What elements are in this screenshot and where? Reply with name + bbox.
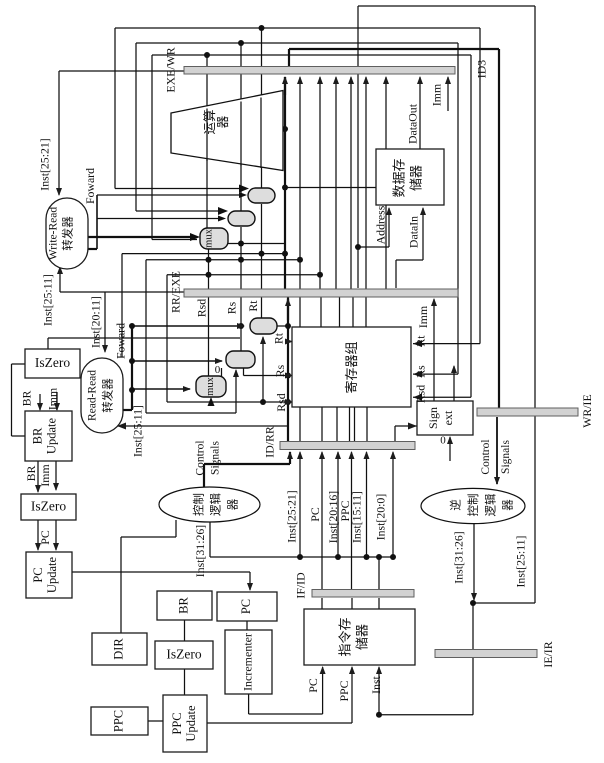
svg-text:Address: Address: [374, 205, 388, 244]
svg-text:Rs: Rs: [414, 365, 428, 378]
svg-text:Inst[20:11]: Inst[20:11]: [89, 296, 103, 348]
svg-text:PPC: PPC: [170, 712, 184, 734]
svg-text:转发器: 转发器: [101, 378, 115, 413]
svg-text:RR/EXE: RR/EXE: [169, 271, 183, 313]
svg-text:0: 0: [440, 435, 446, 447]
svg-text:DataIn: DataIn: [407, 216, 421, 248]
svg-text:Inst[25:11]: Inst[25:11]: [131, 405, 145, 457]
svg-text:Write-Read: Write-Read: [48, 207, 60, 260]
svg-text:DataOut: DataOut: [406, 103, 420, 144]
svg-text:Imm: Imm: [46, 388, 60, 410]
svg-text:Rsd: Rsd: [414, 385, 428, 403]
svg-text:储器: 储器: [408, 165, 423, 191]
svg-text:PC: PC: [308, 507, 322, 522]
svg-text:数据存: 数据存: [391, 158, 406, 197]
svg-text:Inst[31:26]: Inst[31:26]: [452, 531, 466, 583]
svg-text:Signals: Signals: [500, 440, 512, 474]
svg-text:Update: Update: [184, 705, 198, 742]
svg-text:Rsd: Rsd: [195, 299, 209, 317]
svg-text:器: 器: [216, 115, 230, 128]
svg-text:运算: 运算: [202, 109, 217, 134]
svg-text:Inst[20:0]: Inst[20:0]: [374, 494, 388, 541]
svg-text:Rs: Rs: [225, 301, 239, 314]
svg-text:控制: 控制: [466, 494, 480, 517]
svg-text:Inst[25:21]: Inst[25:21]: [38, 138, 52, 190]
svg-text:Inst[25:11]: Inst[25:11]: [514, 535, 528, 587]
svg-text:Sign: Sign: [426, 407, 440, 429]
svg-text:Rsd: Rsd: [274, 393, 288, 411]
svg-text:Imm: Imm: [430, 84, 444, 106]
svg-text:寄存器组: 寄存器组: [344, 341, 359, 393]
svg-text:IsZero: IsZero: [31, 499, 66, 514]
svg-text:PC: PC: [38, 530, 52, 545]
svg-text:Signals: Signals: [210, 441, 222, 475]
svg-text:器: 器: [502, 499, 515, 511]
svg-text:BR: BR: [30, 427, 44, 444]
svg-text:IF/ID: IF/ID: [294, 572, 308, 599]
svg-text:mux: mux: [205, 376, 216, 395]
svg-text:Inst[25:11]: Inst[25:11]: [41, 274, 55, 326]
svg-text:Inst[15:11]: Inst[15:11]: [350, 491, 364, 543]
svg-text:EXE/WR: EXE/WR: [164, 47, 178, 92]
svg-text:Control: Control: [195, 440, 207, 475]
svg-text:Imm: Imm: [38, 464, 52, 486]
svg-text:Update: Update: [44, 418, 58, 455]
svg-text:BR: BR: [24, 466, 38, 482]
svg-text:转发器: 转发器: [61, 216, 75, 251]
svg-text:Incrementer: Incrementer: [240, 633, 254, 691]
svg-text:ext: ext: [441, 410, 455, 425]
svg-text:器: 器: [227, 498, 240, 510]
svg-text:PC: PC: [306, 678, 320, 693]
svg-text:Rt: Rt: [414, 335, 428, 347]
svg-text:Read-Read: Read-Read: [87, 370, 99, 421]
svg-text:Foward: Foward: [114, 323, 128, 359]
svg-text:BR: BR: [176, 597, 190, 614]
svg-text:Rt: Rt: [246, 300, 260, 312]
svg-text:指令存: 指令存: [337, 617, 352, 656]
svg-text:Inst[31:26]: Inst[31:26]: [193, 525, 207, 577]
svg-text:WR/IE: WR/IE: [580, 394, 594, 427]
svg-text:PC: PC: [239, 599, 253, 614]
svg-text:控制: 控制: [192, 493, 206, 516]
svg-text:PPC: PPC: [111, 710, 125, 732]
svg-text:IE/IR: IE/IR: [541, 641, 555, 667]
svg-text:逆: 逆: [449, 499, 463, 511]
svg-text:BR: BR: [20, 391, 34, 407]
svg-text:逻辑: 逻辑: [209, 493, 223, 516]
svg-text:Inst: Inst: [369, 675, 383, 693]
svg-text:Control: Control: [480, 439, 492, 474]
svg-text:Inst[25:21]: Inst[25:21]: [285, 490, 299, 542]
svg-text:Imm: Imm: [416, 306, 430, 328]
svg-text:Foward: Foward: [83, 168, 97, 204]
svg-text:IsZero: IsZero: [166, 647, 201, 662]
svg-text:ID/RR: ID/RR: [263, 426, 277, 458]
svg-text:DIR: DIR: [111, 638, 125, 660]
svg-text:储器: 储器: [354, 624, 369, 650]
svg-text:PC: PC: [31, 567, 45, 582]
svg-text:mux: mux: [203, 228, 214, 247]
svg-text:逻辑: 逻辑: [483, 493, 497, 516]
svg-text:Update: Update: [45, 557, 59, 594]
svg-text:Rt: Rt: [272, 332, 286, 344]
svg-text:ID3: ID3: [475, 60, 489, 78]
svg-text:IsZero: IsZero: [35, 355, 70, 370]
svg-text:PPC: PPC: [337, 680, 351, 701]
svg-text:0: 0: [215, 364, 221, 376]
svg-text:Rs: Rs: [273, 364, 287, 377]
